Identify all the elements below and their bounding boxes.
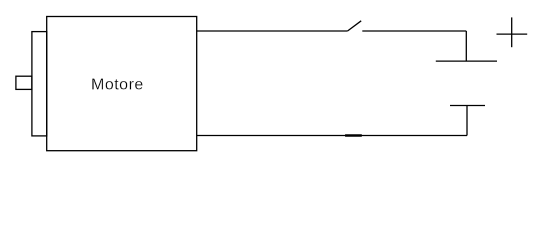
switch S1 lever (open): [348, 21, 362, 31]
wire battery negative lead: [466, 106, 468, 136]
wire bottom from battery to motor: [197, 135, 467, 137]
plus polarity mark: [497, 17, 528, 47]
motor M1 shaft: [16, 76, 32, 89]
wire top from motor to switch: [197, 30, 348, 32]
motor M1 back plate: [32, 32, 47, 136]
svg-text:Motore: Motore: [91, 77, 144, 94]
battery B1 positive plate: [436, 60, 497, 62]
wire top from switch to battery: [362, 30, 466, 32]
battery B1 negative plate: [450, 105, 485, 107]
motor M1 body: [47, 17, 197, 151]
closed contact segment on bottom wire: [345, 134, 362, 137]
wire battery positive lead: [465, 31, 467, 61]
label Motore: [91, 77, 144, 94]
